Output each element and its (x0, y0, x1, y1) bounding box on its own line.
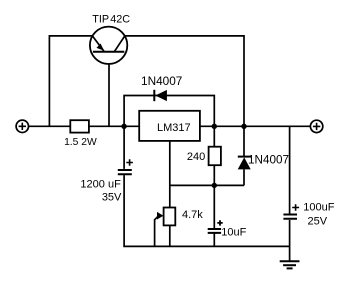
diode D1 1N4007 (bypass, pointing left) (141, 74, 182, 101)
node A (121, 124, 126, 129)
wire (243, 169, 245, 185)
wire (123, 126, 125, 169)
wire (213, 233, 215, 246)
wire (29, 125, 311, 127)
wire (170, 184, 244, 186)
resistor R 1.5 2W (70, 120, 89, 132)
svg-text:35V: 35V (102, 192, 122, 204)
regulator U1 LM317 (139, 111, 200, 141)
ground (280, 261, 300, 268)
wire (169, 141, 171, 208)
svg-text:240: 240 (187, 151, 205, 163)
svg-text:TIP42C: TIP42C (92, 13, 130, 25)
wire (289, 126, 291, 213)
svg-text:1N4007: 1N4007 (141, 74, 182, 88)
svg-text:1200 uF: 1200 uF (80, 179, 121, 191)
wire (124, 96, 214, 127)
wire (155, 216, 159, 247)
svg-text:100uF: 100uF (303, 202, 334, 214)
svg-text:4.7k: 4.7k (182, 209, 203, 221)
node junction dots (121, 124, 246, 188)
terminal IN (16, 120, 28, 132)
potentiometer R3 4.7k (157, 208, 203, 226)
wire (213, 165, 215, 185)
wire (124, 175, 290, 246)
svg-text:1N4007: 1N4007 (248, 154, 289, 167)
node C (241, 124, 246, 129)
wire (213, 126, 215, 146)
wire (243, 126, 245, 156)
wire (125, 36, 244, 126)
transistor Q1 TIP42C (90, 13, 130, 64)
terminal OUT (310, 120, 322, 132)
svg-text:1.5 2W: 1.5 2W (64, 137, 97, 148)
capacitor C3 100uF 25V (283, 202, 334, 228)
wire (169, 225, 171, 246)
wire (108, 52, 110, 127)
wire (49, 36, 92, 126)
wire (289, 220, 291, 247)
resistor R2 240 (187, 147, 221, 166)
wire (213, 185, 215, 228)
wire (289, 246, 291, 261)
svg-text:10uF: 10uF (221, 227, 246, 239)
svg-text:25V: 25V (308, 215, 328, 227)
capacitor C2 10uF (208, 220, 247, 238)
diode D2 1N4007 (vertical, pointing up) (238, 154, 289, 170)
node D (212, 183, 217, 188)
capacitor C1 1200uF 35V (80, 159, 132, 204)
node B (212, 124, 217, 129)
svg-text:LM317: LM317 (157, 122, 191, 134)
